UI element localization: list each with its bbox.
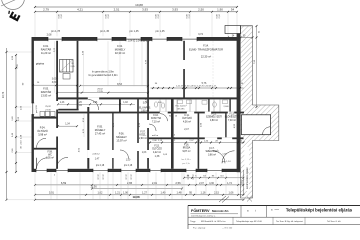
- left connectors: [7, 51, 32, 53]
- svg-text:5,91: 5,91: [49, 191, 55, 195]
- svg-text:1,34: 1,34: [65, 124, 70, 126]
- interior wall h y148.8 left: [32, 148, 58, 150]
- svg-text:2,50: 2,50: [198, 7, 204, 11]
- door gaps in interior walls: [56, 101, 58, 110]
- svg-text:F.1x 2,04 m²: F.1x 2,04 m²: [175, 105, 186, 108]
- svg-text:F.08.: F.08.: [48, 152, 53, 154]
- svg-text:4,22 m²: 4,22 m²: [153, 151, 161, 154]
- dim row y142.5 entrance: [148, 142, 244, 144]
- svg-text:WC: WC: [48, 155, 52, 157]
- svg-text:25,32: 25,32: [45, 106, 51, 108]
- svg-text:7,40 m²: 7,40 m²: [228, 119, 236, 122]
- interior extension lines: [54, 41, 56, 92]
- svg-text:Településképi rajz M 1:100: Településképi rajz M 1:100: [236, 220, 263, 223]
- vertical dim right of bottom: [243, 170, 245, 195]
- svg-text:1,43: 1,43: [60, 102, 65, 104]
- svg-text:2,06 12: 2,06 12: [92, 154, 100, 156]
- svg-text:4,36 m²: 4,36 m²: [183, 120, 191, 123]
- extension lines bottom: [34, 172, 36, 199]
- door arcs main entrance right: [213, 151, 226, 164]
- bottom row C 11,36: [92, 188, 182, 190]
- door arc corridor top: [88, 100, 99, 111]
- svg-text:km 3,18 s: km 3,18 s: [181, 159, 190, 161]
- door arc entrance bottom-left: [37, 158, 48, 169]
- top-right step rect: [225, 26, 241, 34]
- svg-text:szomszédos épület: szomszédos épület: [246, 167, 249, 189]
- svg-text:F.14.: F.14.: [203, 44, 209, 48]
- interior wall h y112.4: [57, 112, 244, 114]
- hatch band right neighbour: [240, 26, 278, 198]
- svg-text:11,32: 11,32: [241, 179, 243, 185]
- right vertical dim: [256, 26, 258, 107]
- svg-text:lm gerendáktól beltiszt 3,0lm: lm gerendáktól beltiszt 3,0lm: [88, 74, 117, 77]
- top wall windows: [48, 36, 62, 42]
- svg-text:1,26: 1,26: [77, 102, 82, 104]
- interior wall v x172 double: [171, 98, 174, 169]
- svg-text:4,36: 4,36: [209, 182, 214, 185]
- interior wall h y98.5: [57, 97, 240, 99]
- svg-text:13,74: 13,74: [2, 91, 5, 98]
- svg-text:27,43 m²: 27,43 m²: [95, 131, 105, 135]
- svg-text:29,02: 29,02: [97, 88, 103, 90]
- svg-text:Településképi bejelentési eljá: Településképi bejelentési eljárás: [286, 208, 353, 213]
- svg-text:2,08: 2,08: [47, 34, 52, 37]
- svg-text:22,30 m²: 22,30 m²: [201, 55, 211, 59]
- svg-text:RAKTÁR: RAKTÁR: [41, 47, 52, 51]
- svg-text:1,62: 1,62: [98, 191, 104, 195]
- interior wall h y117.5 left: [32, 117, 58, 119]
- svg-text:27,35: 27,35: [97, 91, 103, 93]
- dim line y92.7: [57, 92, 148, 94]
- interior wall h y138.4 right: [148, 137, 244, 139]
- svg-text:5,76: 5,76: [202, 82, 207, 85]
- svg-text:13,93 m²: 13,93 m²: [41, 93, 51, 97]
- left wall window: [31, 103, 35, 115]
- svg-text:1,36: 1,36: [93, 102, 98, 104]
- outer left wall: [32, 37, 34, 172]
- svg-text:F.13.: F.13.: [229, 114, 234, 116]
- svg-text:1,06: 1,06: [123, 191, 129, 195]
- interior wall v x209: [208, 98, 209, 113]
- svg-text:— M 1:100: — M 1:100: [222, 227, 233, 229]
- svg-text:1024 Budapest Lövőház u.: 1024 Budapest Lövőház u.: [191, 214, 216, 217]
- svg-text:54: 54: [231, 7, 235, 11]
- interior wall v x113: [112, 112, 113, 168]
- svg-text:3,60: 3,60: [52, 82, 57, 84]
- svg-text:13,97 m²: 13,97 m²: [116, 138, 126, 142]
- svg-text:8,53: 8,53: [117, 83, 122, 86]
- svg-text:1,38: 1,38: [155, 155, 160, 158]
- svg-text:11,36: 11,36: [90, 184, 97, 188]
- svg-text:11,20 m²: 11,20 m²: [41, 51, 51, 55]
- svg-text:Tel.Terv. 6. ált.: Tel.Terv. 6. ált.: [327, 220, 341, 223]
- svg-text:1,02: 1,02: [123, 102, 128, 104]
- right band dim line y88: [151, 87, 244, 89]
- svg-text:3,93: 3,93: [142, 7, 148, 11]
- svg-text:1,16: 1,16: [201, 191, 207, 195]
- svg-text:1,50: 1,50: [126, 160, 131, 162]
- dim 8,53 line: [80, 85, 148, 87]
- svg-text:1,27: 1,27: [142, 191, 148, 195]
- svg-text:3,98 m²: 3,98 m²: [38, 132, 47, 136]
- interior wall v x230: [229, 98, 230, 113]
- svg-text:F.01.: F.01.: [43, 44, 49, 48]
- svg-text:pm 2,18: pm 2,18: [96, 165, 105, 167]
- sanitary partitions: [159, 100, 161, 112]
- outer bottom wall: [32, 169, 241, 172]
- svg-text:2,65: 2,65: [127, 181, 133, 185]
- svg-text:gépész: gépész: [36, 62, 45, 66]
- svg-text:M1 Bartók B. út 152/c fsz.: M1 Bartók B. út 152/c fsz.: [201, 220, 226, 223]
- svg-text:WC WC: WC WC: [177, 108, 185, 110]
- svg-text:pm 1,1x: pm 1,1x: [182, 163, 190, 165]
- outer right wall: [237, 34, 241, 173]
- interior wall v x87.3: [87, 107, 89, 169]
- svg-text:F.03.: F.03.: [43, 87, 49, 91]
- left inner chain: [15, 55, 17, 172]
- stairs: [60, 60, 74, 73]
- svg-text:4,80 m²: 4,80 m²: [210, 119, 218, 122]
- svg-text:3,74: 3,74: [198, 33, 203, 36]
- interior wall v x57: [56, 41, 58, 169]
- svg-text:2,47: 2,47: [184, 129, 189, 131]
- bottom row D: [35, 194, 244, 196]
- svg-text:pm 1,45: pm 1,45: [100, 30, 110, 33]
- north circle: [2, 0, 25, 10]
- svg-text:FŐMTERV: FŐMTERV: [191, 208, 210, 213]
- lockers: [40, 111, 45, 116]
- interior wall v x226: [225, 112, 226, 137]
- svg-text:1,21: 1,21: [115, 191, 121, 195]
- vertical dim line x84: [83, 114, 85, 137]
- interior wall v x120: [119, 98, 121, 113]
- svg-text:EL.KAPCS.: EL.KAPCS.: [139, 107, 151, 110]
- svg-text:2,04: 2,04: [77, 105, 82, 107]
- svg-text:9,87 m²: 9,87 m²: [182, 150, 190, 153]
- svg-text:7,10 m²: 7,10 m²: [152, 120, 160, 123]
- szomszedos epulet: [244, 147, 249, 191]
- door arc oltozo left: [37, 138, 47, 148]
- svg-text:pm 1,14: pm 1,14: [223, 161, 232, 163]
- svg-text:3,66 m²: 3,66 m²: [208, 153, 216, 156]
- svg-text:3,05 m²: 3,05 m²: [46, 157, 54, 160]
- svg-text:F.04.: F.04.: [40, 126, 46, 130]
- svg-text:2,51: 2,51: [114, 7, 120, 11]
- svg-text:Fsz. alaprajz: Fsz. alaprajz: [193, 226, 205, 229]
- bottom row B: [35, 184, 244, 186]
- svg-text:4,21: 4,21: [77, 7, 83, 11]
- svg-text:6,59: 6,59: [61, 181, 67, 185]
- svg-text:F.06.: F.06.: [119, 132, 125, 136]
- bump-out room white: [242, 115, 271, 135]
- dim 3,60 line F.01: [33, 84, 77, 86]
- svg-text:F.09.: F.09.: [158, 102, 163, 104]
- extension lines top: [34, 13, 36, 37]
- dim 1,34 line: [58, 125, 77, 127]
- svg-text:pm 1,78: pm 1,78: [51, 30, 61, 33]
- svg-text:1,04 92 1,04 1,11 1,07: 1,04 92 1,04 1,11 1,07: [128, 41, 152, 43]
- svg-text:1,90: 1,90: [217, 7, 223, 11]
- svg-text:mű ha: mű ha: [152, 135, 159, 137]
- svg-text:pm 2,18: pm 2,18: [124, 165, 133, 167]
- bottom total 19,68: [35, 199, 244, 201]
- top dim total 19,88: [35, 6, 237, 8]
- svg-text:2,90 m²: 2,90 m²: [139, 137, 147, 140]
- svg-text:2,79: 2,79: [43, 7, 49, 11]
- top dim row 2: [35, 11, 237, 13]
- svg-text:2,07: 2,07: [199, 182, 204, 185]
- svg-text:Ter.Terv. R.Gy. ált. talajszin: Ter.Terv. R.Gy. ált. talajszint: [276, 220, 303, 223]
- outer top wall: [32, 37, 241, 41]
- interior wall v x76.6: [77, 41, 79, 109]
- svg-text:1,74: 1,74: [227, 182, 232, 185]
- diagonal marks: [219, 196, 226, 202]
- interior wall v x148: [147, 41, 149, 169]
- svg-text:1,08 1,24 1,02: 1,08 1,24 1,02: [77, 40, 92, 42]
- svg-text:Mérnöki Zrt.: Mérnöki Zrt.: [212, 209, 229, 213]
- svg-text:F.05.: F.05.: [97, 125, 103, 129]
- svg-text:2,046: 2,046: [223, 106, 229, 108]
- door arc center rooms: [120, 150, 129, 159]
- svg-text:2,15: 2,15: [214, 191, 220, 195]
- svg-text:RAKTÁR: RAKTÁR: [41, 90, 52, 94]
- title block frame: [188, 204, 360, 206]
- svg-text:1,03: 1,03: [142, 152, 147, 154]
- interior wall v x184 transformer: [183, 41, 185, 98]
- north letter E: [6, 10, 20, 22]
- svg-text:27,35: 27,35: [45, 109, 51, 111]
- svg-text:Tárgy:: Tárgy:: [190, 220, 196, 223]
- door arc bump: [262, 127, 270, 135]
- svg-text:1,48: 1,48: [177, 191, 183, 195]
- svg-text:pm 1,45: pm 1,45: [129, 30, 139, 33]
- svg-text:1,47: 1,47: [95, 159, 100, 161]
- interior wall v x138: [137, 98, 139, 169]
- svg-text:1,40: 1,40: [161, 191, 167, 195]
- svg-text:pm 0,90: pm 0,90: [36, 105, 38, 113]
- svg-text:lm gerendás av 3,0lm: lm gerendás av 3,0lm: [92, 71, 114, 74]
- svg-text:3,60 m²: 3,60 m²: [141, 110, 149, 113]
- sanitary fixtures: [154, 102, 158, 107]
- interior wall h y108.8: [57, 109, 79, 111]
- svg-text:1,06: 1,06: [229, 191, 235, 195]
- svg-text:2,01: 2,01: [152, 181, 158, 185]
- svg-text:ELŐKÉSZÍTŐ: ELŐKÉSZÍTŐ: [225, 116, 240, 119]
- interior wall v x198 iroda: [198, 112, 200, 168]
- svg-text:pm 1,45: pm 1,45: [155, 30, 165, 33]
- svg-text:3,93: 3,93: [172, 7, 178, 11]
- svg-text:19,68: 19,68: [133, 195, 140, 199]
- svg-text:2,56: 2,56: [175, 181, 181, 185]
- left outer chain: [6, 48, 8, 200]
- svg-text:1,21 47 84 16 1,08 12 1,: 1,21 47 84 16 1,08 12 1,47 25 1,34 28 1,…: [176, 86, 217, 88]
- door arc corridor bottom: [57, 157, 69, 169]
